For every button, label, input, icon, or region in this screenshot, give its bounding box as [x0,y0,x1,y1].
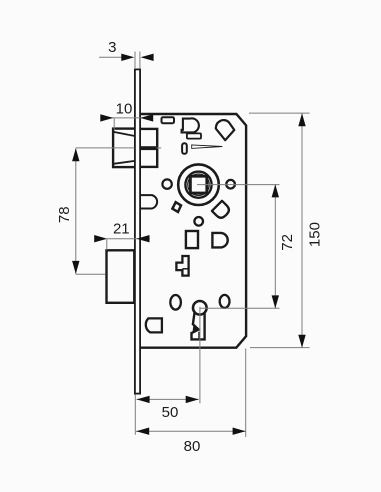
cutout pentagon top right [216,120,235,140]
latch bolt tail [140,129,158,167]
wire body bottom extension [250,347,310,349]
arrow dim50 left [137,396,150,403]
svg-text:3: 3 [108,39,116,56]
arrow dim150 down [298,335,305,348]
cutout D bottom left [146,318,162,332]
keyhole foot inner line [198,332,200,339]
arrow dim72 up [272,184,279,197]
cutout cross shape [176,256,188,276]
arrow dim10 right [140,114,153,121]
cutout D middle [212,233,227,248]
wire dim10 line [101,117,153,119]
cutout small rect below D [187,133,201,138]
arrow dim21 left [94,235,107,242]
wire body right ext [245,349,247,437]
cutout vertical slot [182,143,187,154]
wire dim21 line [107,238,150,240]
arrow dim78 up [72,148,79,161]
oval slot right [220,295,230,308]
spindle follower middle ring [185,172,211,198]
wire dim50 line [137,398,199,400]
keyhole notch wedge [193,325,199,332]
spindle square hole [190,176,206,193]
cutout square middle [186,231,198,248]
wire spindle centerline [197,184,280,186]
arrow dim72 down [272,295,279,308]
wire body top extension [249,112,310,114]
svg-text:80: 80 [184,438,201,455]
svg-text:10: 10 [116,101,133,118]
wire latch centerline left [76,147,135,149]
wire dim72 line [274,185,276,309]
arrow dim50 right [186,396,199,403]
wire deadbolt centerline [76,273,106,275]
wire keyhole centerline [200,307,280,309]
arrow dim21 right [137,235,150,242]
wire plate top ext left [134,52,136,70]
thin reference and dimension lines [76,52,310,437]
cutout tilted D [212,201,231,220]
wire dim78 line [75,148,77,274]
oval slot left [170,295,181,310]
arrow dim80 left [136,428,149,435]
svg-text:72: 72 [279,234,296,251]
dimension texts [56,39,324,455]
screw hole right [226,180,235,189]
arrowheads [72,54,306,435]
wire latch centerline right [157,147,162,149]
svg-text:150: 150 [307,222,324,247]
screw hole left [162,179,171,188]
arrow dim78 down [72,261,79,274]
svg-text:21: 21 [113,220,130,237]
wire plate bottom ext [134,395,136,435]
cutout D top [182,118,199,132]
arrow dim3 left [121,54,134,61]
faceplate [135,69,140,393]
wire keyhole axis [199,307,201,404]
arrow dim3 right [141,54,154,61]
cutout tilted slot [172,202,181,212]
spindle follower inner ring [188,174,209,195]
wire dim150 line [301,113,303,347]
arrow dim10 left [100,114,113,121]
wire dim3 leader [99,56,122,58]
wire dim80 line [136,430,246,432]
lock body [140,114,247,348]
latch bolt head [113,129,135,168]
arrow dim80 right [233,428,246,435]
spindle follower outer circle [178,164,219,205]
wire dim10 ext [113,118,115,130]
wire plate top ext right [139,52,141,70]
cutout small rect top [162,117,175,123]
arrow dim150 up [298,113,305,126]
keyhole stem [192,308,205,340]
svg-text:50: 50 [162,404,179,421]
cutout capsule left edge [140,195,157,208]
deadbolt [107,250,135,302]
hole below spindle [194,217,203,226]
keyhole circle [193,301,207,315]
svg-text:78: 78 [56,206,73,223]
spring pointer [192,145,223,149]
wire dim21 ext [106,239,108,250]
